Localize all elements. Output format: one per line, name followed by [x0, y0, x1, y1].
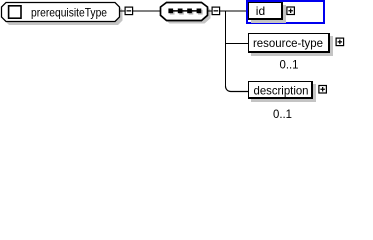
- collapse box (minus) after sequence: [212, 7, 220, 15]
- wire sequence to collapse box: [208, 10, 212, 12]
- svg-text:0..1: 0..1: [273, 107, 292, 121]
- element id selection highlight: [247, 1, 324, 23]
- svg-text:id: id: [256, 4, 265, 18]
- svg-text:prerequisiteType: prerequisiteType: [31, 5, 107, 19]
- sequence compositor shadow: [164, 5, 211, 24]
- wire root to collapse box: [120, 10, 125, 12]
- element resource-type box: [248, 33, 330, 53]
- complexType prerequisiteType shadow: [5, 5, 123, 25]
- expand box (plus) for resource-type: [336, 38, 344, 46]
- svg-text:description: description: [254, 83, 309, 97]
- element id box: [248, 2, 283, 20]
- collapse box (minus) after prerequisiteType: [125, 7, 133, 15]
- sequence dots: [168, 9, 201, 14]
- wire vertical trunk: [225, 11, 227, 87]
- svg-text:resource-type: resource-type: [253, 36, 323, 50]
- element description box: [248, 81, 313, 99]
- sequence compositor octagon: [161, 3, 208, 21]
- wire collapse box to sequence: [133, 10, 161, 12]
- wire elbow to description: [226, 86, 249, 91]
- wire branch to resource-type: [225, 42, 248, 44]
- expand box (plus) for description: [319, 86, 327, 94]
- svg-text:0..1: 0..1: [280, 57, 299, 71]
- complexType prerequisiteType box: [2, 3, 120, 22]
- element description shadow: [251, 84, 316, 102]
- wire to element id: [220, 10, 247, 12]
- sequence dots shadow: [170, 10, 203, 15]
- complexType icon: [9, 6, 21, 18]
- expand box (plus) for id: [287, 7, 295, 15]
- element id shadow: [251, 5, 286, 23]
- element resource-type shadow: [251, 36, 333, 56]
